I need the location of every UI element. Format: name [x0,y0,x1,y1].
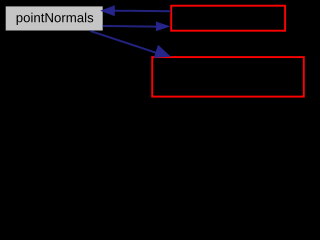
arrowhead C pointing down-right at bottom red box [154,45,171,58]
arrowhead B pointing right at top red box [156,22,171,32]
arrowhead A pointing left at pointNormals [100,5,115,16]
node bottom red box [152,57,304,97]
wire edge C: pointNormals to bottom red box (diagonal) [90,31,156,53]
node pointNormals label [17,13,94,25]
wire edge A: top red box to pointNormals [115,10,171,13]
wire edge B: pointNormals to top red box [103,25,157,28]
node pointNormals box [6,6,103,30]
node top red box [171,6,285,31]
